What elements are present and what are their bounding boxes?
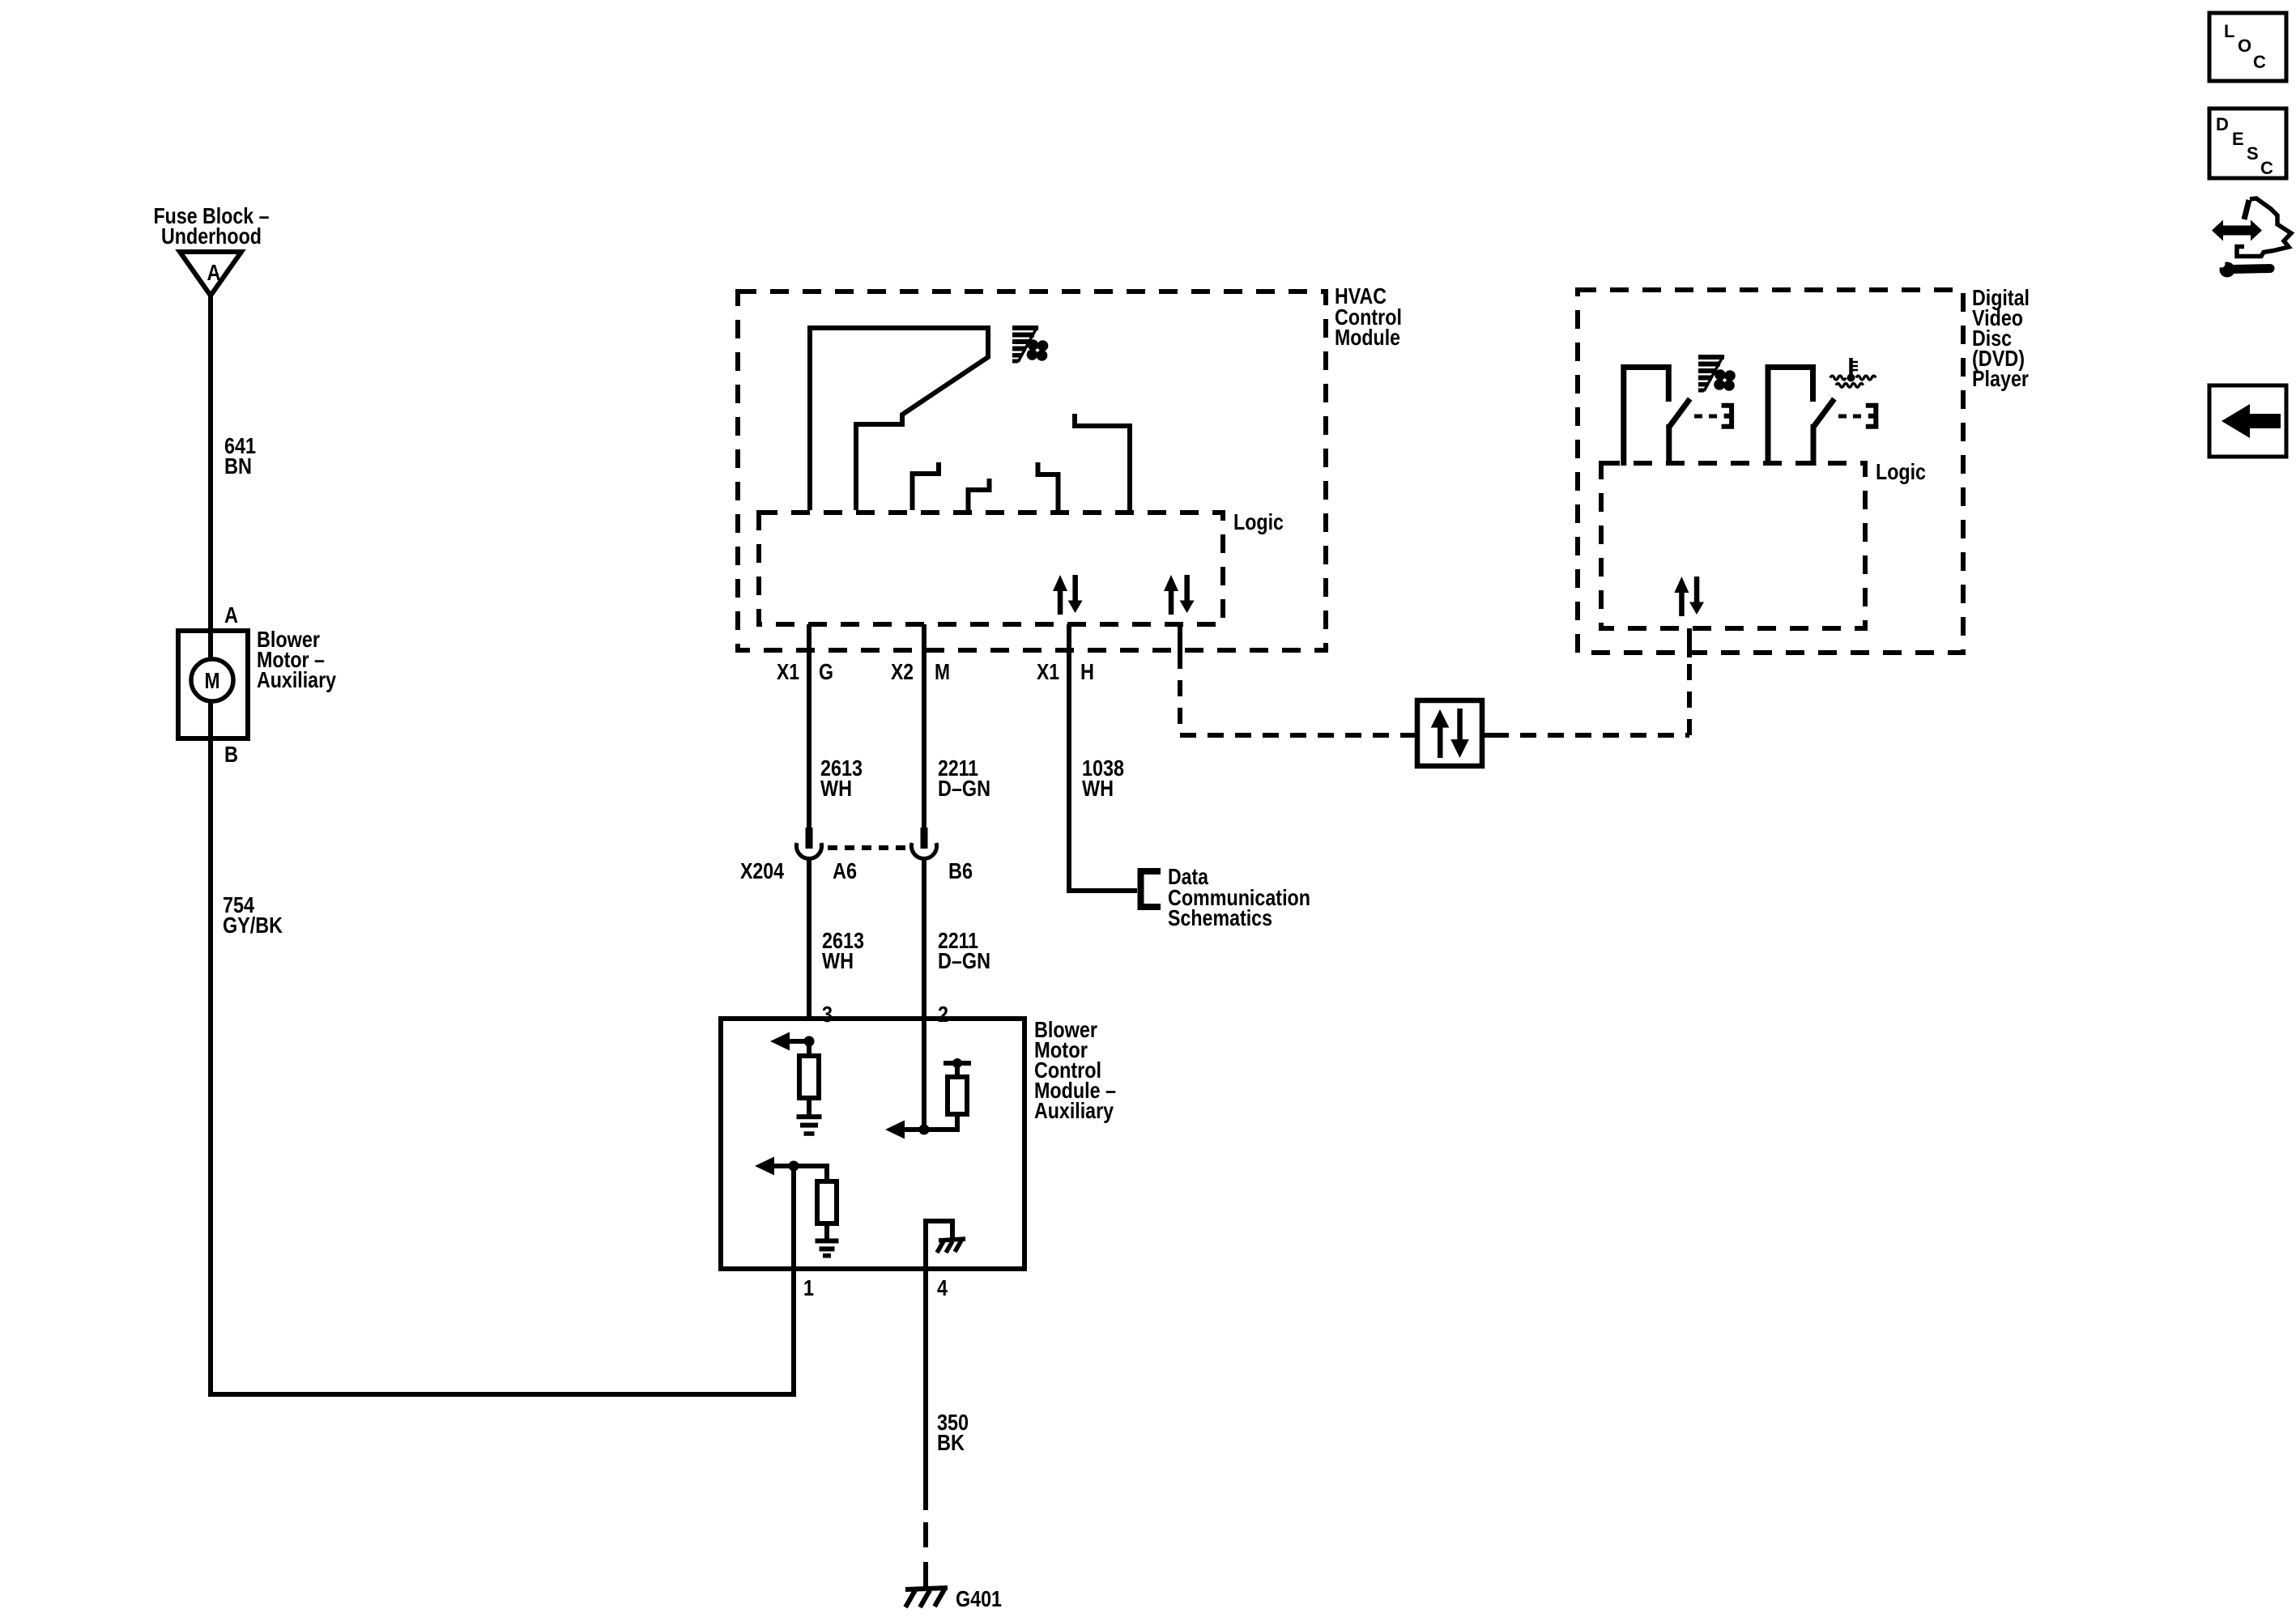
relay switch 2 pivot wire (1811, 424, 1817, 466)
thermometer waves (1830, 376, 1876, 387)
svg-text:A6: A6 (833, 858, 857, 883)
svg-text:Player: Player (1972, 366, 2029, 391)
HVAC control module label (1335, 283, 1402, 350)
branch B arrow (904, 1127, 924, 1132)
svg-text:GY/BK: GY/BK (223, 913, 283, 938)
svg-text:BK: BK (937, 1430, 965, 1455)
wire A6 to module pin 3 (807, 859, 811, 1019)
relay switch 2 dashed link (1838, 415, 1863, 419)
serial data link box arrows (1431, 709, 1469, 758)
step shape a (913, 462, 939, 510)
svg-text:Schematics: Schematics (1168, 905, 1272, 930)
chassis ground symbol branch D (937, 1239, 965, 1253)
DVD logic box (1601, 463, 1865, 628)
LOC icon box (2209, 13, 2286, 81)
wire 641 BN (208, 296, 213, 631)
branch B wire to resistor (924, 1114, 957, 1130)
svg-text:Underhood: Underhood (161, 223, 262, 249)
svg-text:B6: B6 (948, 858, 973, 883)
data communication bracket (1141, 871, 1161, 907)
svg-text:G: G (819, 659, 833, 684)
wire label 350 BK (937, 1410, 969, 1455)
thermometer bulb (1847, 374, 1855, 382)
svg-text:H: H (1080, 659, 1094, 684)
connector pin labels X1 G X2 M X1 H (777, 659, 1094, 684)
DVD player label (1972, 285, 2030, 391)
wire label 2613 WH lower (822, 928, 864, 973)
wrench icon (2220, 262, 2235, 278)
wire B6 to module pin 2 (922, 859, 926, 1019)
relay switch 1 pivot wire (1666, 424, 1672, 466)
relay switch 1 dashed link (1694, 415, 1719, 419)
branch C arrow (773, 1164, 794, 1168)
DESC icon letters (2216, 114, 2273, 178)
branch A arrow (789, 1039, 809, 1044)
wire 754 GY/BK to module pin 1 (211, 738, 794, 1394)
svg-text:X1: X1 (1037, 659, 1059, 684)
svg-text:L: L (2224, 21, 2234, 41)
relay switch 1 lever (1669, 399, 1690, 428)
step shape d (1075, 414, 1130, 510)
branch B junction node (919, 1125, 930, 1135)
ground symbol branch C (816, 1239, 839, 1258)
svg-text:Auxiliary: Auxiliary (257, 667, 336, 692)
svg-text:Logic: Logic (1233, 509, 1284, 534)
branch A wire to ground (807, 1098, 811, 1116)
svg-text:S: S (2247, 143, 2259, 164)
svg-text:BN: BN (224, 453, 252, 479)
fuse block label (154, 203, 270, 249)
data communication schematics label (1168, 864, 1310, 930)
connector X204 pin B6 female cup (912, 843, 937, 858)
branch C wire to pin 1 (791, 1166, 796, 1269)
resistor branch B (948, 1077, 967, 1114)
svg-text:C: C (2253, 52, 2266, 72)
step shape c (1038, 462, 1059, 510)
svg-text:O: O (2238, 36, 2251, 56)
back icon arrow (2221, 404, 2281, 438)
connector X204 dashed tie line (828, 845, 907, 850)
thermometer icon stem (1851, 358, 1859, 376)
blower motor M circle (191, 659, 233, 701)
svg-text:3: 3 (822, 1002, 833, 1027)
wire 350 BK (923, 1269, 928, 1510)
HVAC blower pictograph outline (810, 328, 988, 510)
blower motor label (257, 627, 336, 692)
branch B resistor top tie (955, 1063, 960, 1077)
wire label 2613 WH upper (820, 755, 863, 801)
connector labels X204 A6 B6 (740, 858, 973, 883)
dashed serial data wire HVAC to DVD (1178, 624, 1182, 653)
branch C wire to ground (824, 1223, 829, 1240)
svg-text:WH: WH (820, 776, 852, 801)
fan rotor DVD (1714, 369, 1736, 391)
serial data link box (1417, 700, 1482, 766)
svg-text:1: 1 (803, 1275, 814, 1300)
connector X204 pin A6 male terminal (806, 828, 813, 849)
svg-text:B: B (224, 742, 238, 767)
LOC icon letters (2224, 21, 2266, 72)
serial data arrows pair 1 (X1-H) (1053, 575, 1083, 615)
svg-text:WH: WH (822, 948, 854, 973)
svg-text:X204: X204 (740, 858, 784, 883)
back icon box (2209, 385, 2286, 457)
HVAC control module box (738, 291, 1326, 650)
svg-text:E: E (2232, 129, 2244, 149)
svg-text:4: 4 (937, 1275, 948, 1300)
svg-text:D: D (2216, 114, 2229, 134)
branch C junction node (789, 1161, 799, 1172)
svg-text:G401: G401 (956, 1586, 1002, 1611)
wire label 754 GY/BK (223, 892, 283, 938)
relay switch 1 contact (1722, 406, 1732, 427)
blower motor auxiliary box (178, 631, 248, 738)
svg-text:WH: WH (1082, 776, 1114, 801)
wire label 1038 WH (1082, 755, 1124, 801)
wire X2-M (922, 624, 926, 829)
fan rotor HVAC (1027, 339, 1049, 361)
branch D internal ground wire (926, 1221, 952, 1269)
DVD player box (1578, 290, 1963, 653)
svg-text:M: M (205, 668, 220, 693)
svg-text:A: A (207, 260, 221, 285)
svg-text:X1: X1 (777, 659, 799, 684)
svg-text:X2: X2 (891, 659, 914, 684)
svg-text:D–GN: D–GN (938, 776, 990, 801)
svg-text:2: 2 (938, 1002, 948, 1027)
wire X1-H to data bracket (1069, 624, 1137, 891)
branch B wire from pin 2 (922, 1019, 926, 1130)
DESC icon box (2209, 109, 2286, 178)
svg-text:Auxiliary: Auxiliary (1034, 1098, 1114, 1123)
HVAC logic box (759, 513, 1223, 624)
svg-text:A: A (224, 602, 238, 628)
connector tool icon double arrow (2212, 220, 2262, 241)
branch A wire to resistor (807, 1041, 811, 1056)
branch A junction node (804, 1036, 815, 1047)
svg-text:M: M (935, 659, 950, 684)
svg-text:D–GN: D–GN (938, 948, 990, 973)
wire label 2211 D-GN lower (938, 928, 990, 973)
relay switch 2 lever (1813, 399, 1834, 428)
connector X204 pin A6 female cup (797, 843, 822, 858)
connector tool icon outline (2244, 200, 2249, 219)
fuse block terminal triangle A (180, 252, 241, 296)
DVD serial data arrows (1674, 577, 1704, 616)
relay switch 1 (blower) frame (1624, 368, 1669, 466)
branch C wire to resistor (794, 1166, 827, 1181)
svg-text:C: C (2260, 158, 2273, 178)
fan cone edge DVD (1704, 355, 1723, 391)
relay switch 2 (coolant) frame (1768, 368, 1813, 466)
fan speed bars DVD (1698, 355, 1724, 393)
wire through motor box (208, 631, 213, 738)
fan cone edge HVAC (1018, 326, 1037, 362)
svg-text:Logic: Logic (1876, 459, 1926, 484)
wire label 641 BN (224, 433, 256, 479)
serial data arrows pair 2 (1164, 575, 1195, 615)
ground G401 symbol (905, 1588, 948, 1607)
resistor branch A (799, 1056, 819, 1098)
fan speed bars HVAC (1012, 326, 1038, 364)
svg-text:Module: Module (1335, 325, 1400, 350)
connector X204 pin B6 male terminal (921, 828, 928, 849)
relay switch 2 contact (1866, 406, 1876, 427)
wire X1-G (807, 624, 811, 829)
resistor branch C (817, 1181, 837, 1223)
step shape b (969, 479, 990, 510)
blower motor control module auxiliary box (721, 1019, 1024, 1269)
ground symbol branch A (797, 1114, 822, 1136)
wire label 2211 D-GN upper (938, 755, 990, 801)
blower motor control module label (1034, 1017, 1116, 1123)
